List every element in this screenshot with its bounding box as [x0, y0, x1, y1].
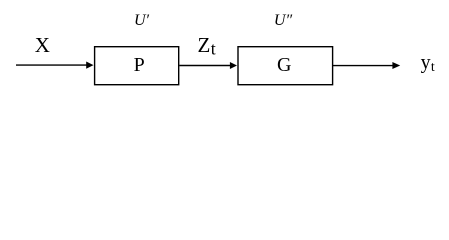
svg-text:Z: Z: [198, 33, 211, 57]
wire: output arrow shaft: [333, 65, 393, 67]
wire: arrowhead into G: [230, 62, 237, 69]
block G (box): [238, 47, 333, 85]
svg-text:P: P: [134, 54, 145, 76]
wire: output arrowhead: [392, 62, 400, 69]
svg-text:t: t: [431, 60, 435, 75]
svg-text:t: t: [211, 39, 216, 59]
svg-text:U″: U″: [274, 12, 293, 29]
svg-text:y: y: [421, 51, 431, 73]
svg-text:X: X: [35, 33, 50, 57]
block P (box): [95, 47, 179, 85]
wire: P to G arrow shaft: [179, 65, 230, 67]
svg-text:U′: U′: [134, 12, 150, 29]
wire: input arrowhead into P: [86, 62, 93, 69]
wire: input arrow shaft X: [16, 64, 87, 66]
svg-text:G: G: [277, 54, 291, 76]
